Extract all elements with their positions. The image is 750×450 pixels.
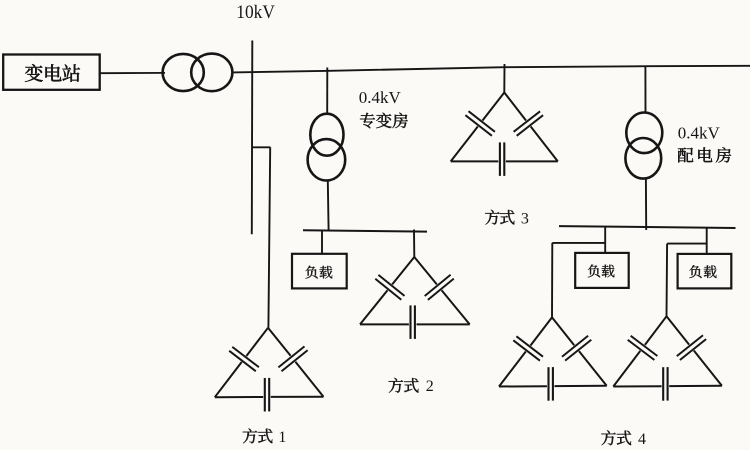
wire jog to mode4 right bank [667, 243, 707, 245]
label 方式 2 [389, 378, 434, 395]
wire LV bus (mode4) [559, 226, 736, 228]
capacitor C3-left [465, 111, 495, 136]
label 配电房 [678, 147, 731, 162]
wire drop to load3 [706, 228, 708, 254]
capacitor bank C4 (delta) [499, 317, 607, 386]
wire T3 to LV bus [645, 179, 647, 230]
wire 10kV feeder riser [251, 41, 254, 235]
load box 负载 (right) [678, 254, 732, 289]
capacitor C4-right [562, 336, 591, 361]
wire 10kV main bus [232, 66, 750, 73]
capacitor C3-right [514, 111, 544, 136]
transformer T2 [308, 114, 346, 181]
capacitor C4-left [513, 336, 543, 360]
label 负载 (left) [588, 264, 615, 277]
label 负载 (mode2) [305, 266, 332, 279]
label 负载 (right) [689, 265, 716, 278]
load box 负载 (left) [575, 253, 629, 288]
wire riser mode4 left [551, 243, 553, 318]
capacitor bank C1 (delta) [215, 328, 324, 397]
wire riser mode4 right [666, 244, 669, 317]
wire substation to transformer T1 [100, 72, 165, 74]
svg-text:4: 4 [638, 431, 646, 448]
capacitor C5-right [677, 335, 706, 360]
capacitor C2-bottom [411, 305, 415, 339]
label 专变房 [360, 113, 408, 129]
wire bus to transformer T3 [644, 66, 646, 112]
substation box 变电站 [3, 55, 100, 90]
transformer T3 [625, 113, 662, 179]
svg-text:0.4kV: 0.4kV [678, 124, 721, 143]
capacitor bank C5 (delta) [613, 316, 722, 386]
wire drop to mode3 bank [503, 64, 505, 93]
capacitor C1-bottom [265, 378, 269, 412]
capacitor C1-left [229, 347, 259, 371]
transformer T1 [163, 54, 233, 92]
capacitor C3-bottom [500, 142, 504, 176]
capacitor C5-left [628, 336, 658, 360]
wire drop to load1 [321, 231, 323, 254]
capacitor C2-left [375, 275, 404, 300]
load box 负载 (mode2) [292, 254, 347, 289]
svg-text:1: 1 [278, 429, 286, 446]
label 变电站 [25, 64, 80, 82]
label 方式 4 [601, 430, 646, 448]
capacitor C2-right [425, 275, 454, 300]
wire riser to mode1 bank [268, 147, 270, 327]
capacitor bank C2 (delta) [360, 257, 470, 324]
svg-text:2: 2 [426, 378, 434, 395]
wire LV bus (mode2) [303, 230, 427, 231]
capacitor C1-right [278, 346, 307, 371]
capacitor C4-bottom [549, 367, 553, 401]
wire branch tick to mode1 [252, 146, 270, 148]
wire T2 to LV bus [327, 181, 330, 231]
wire jog to mode4 left bank [552, 242, 605, 244]
svg-text:0.4kV: 0.4kV [359, 88, 402, 107]
svg-text:10kV: 10kV [236, 2, 275, 23]
wire drop to load2 [604, 227, 606, 253]
svg-text:3: 3 [521, 211, 529, 228]
capacitor bank C3 (delta) [451, 93, 558, 162]
label 方式 3 [485, 210, 529, 228]
capacitor C5-bottom [663, 367, 667, 401]
wire bus to transformer T2 [326, 68, 328, 114]
wire drop to mode2 bank [413, 230, 415, 258]
label 方式 1 [243, 428, 287, 445]
